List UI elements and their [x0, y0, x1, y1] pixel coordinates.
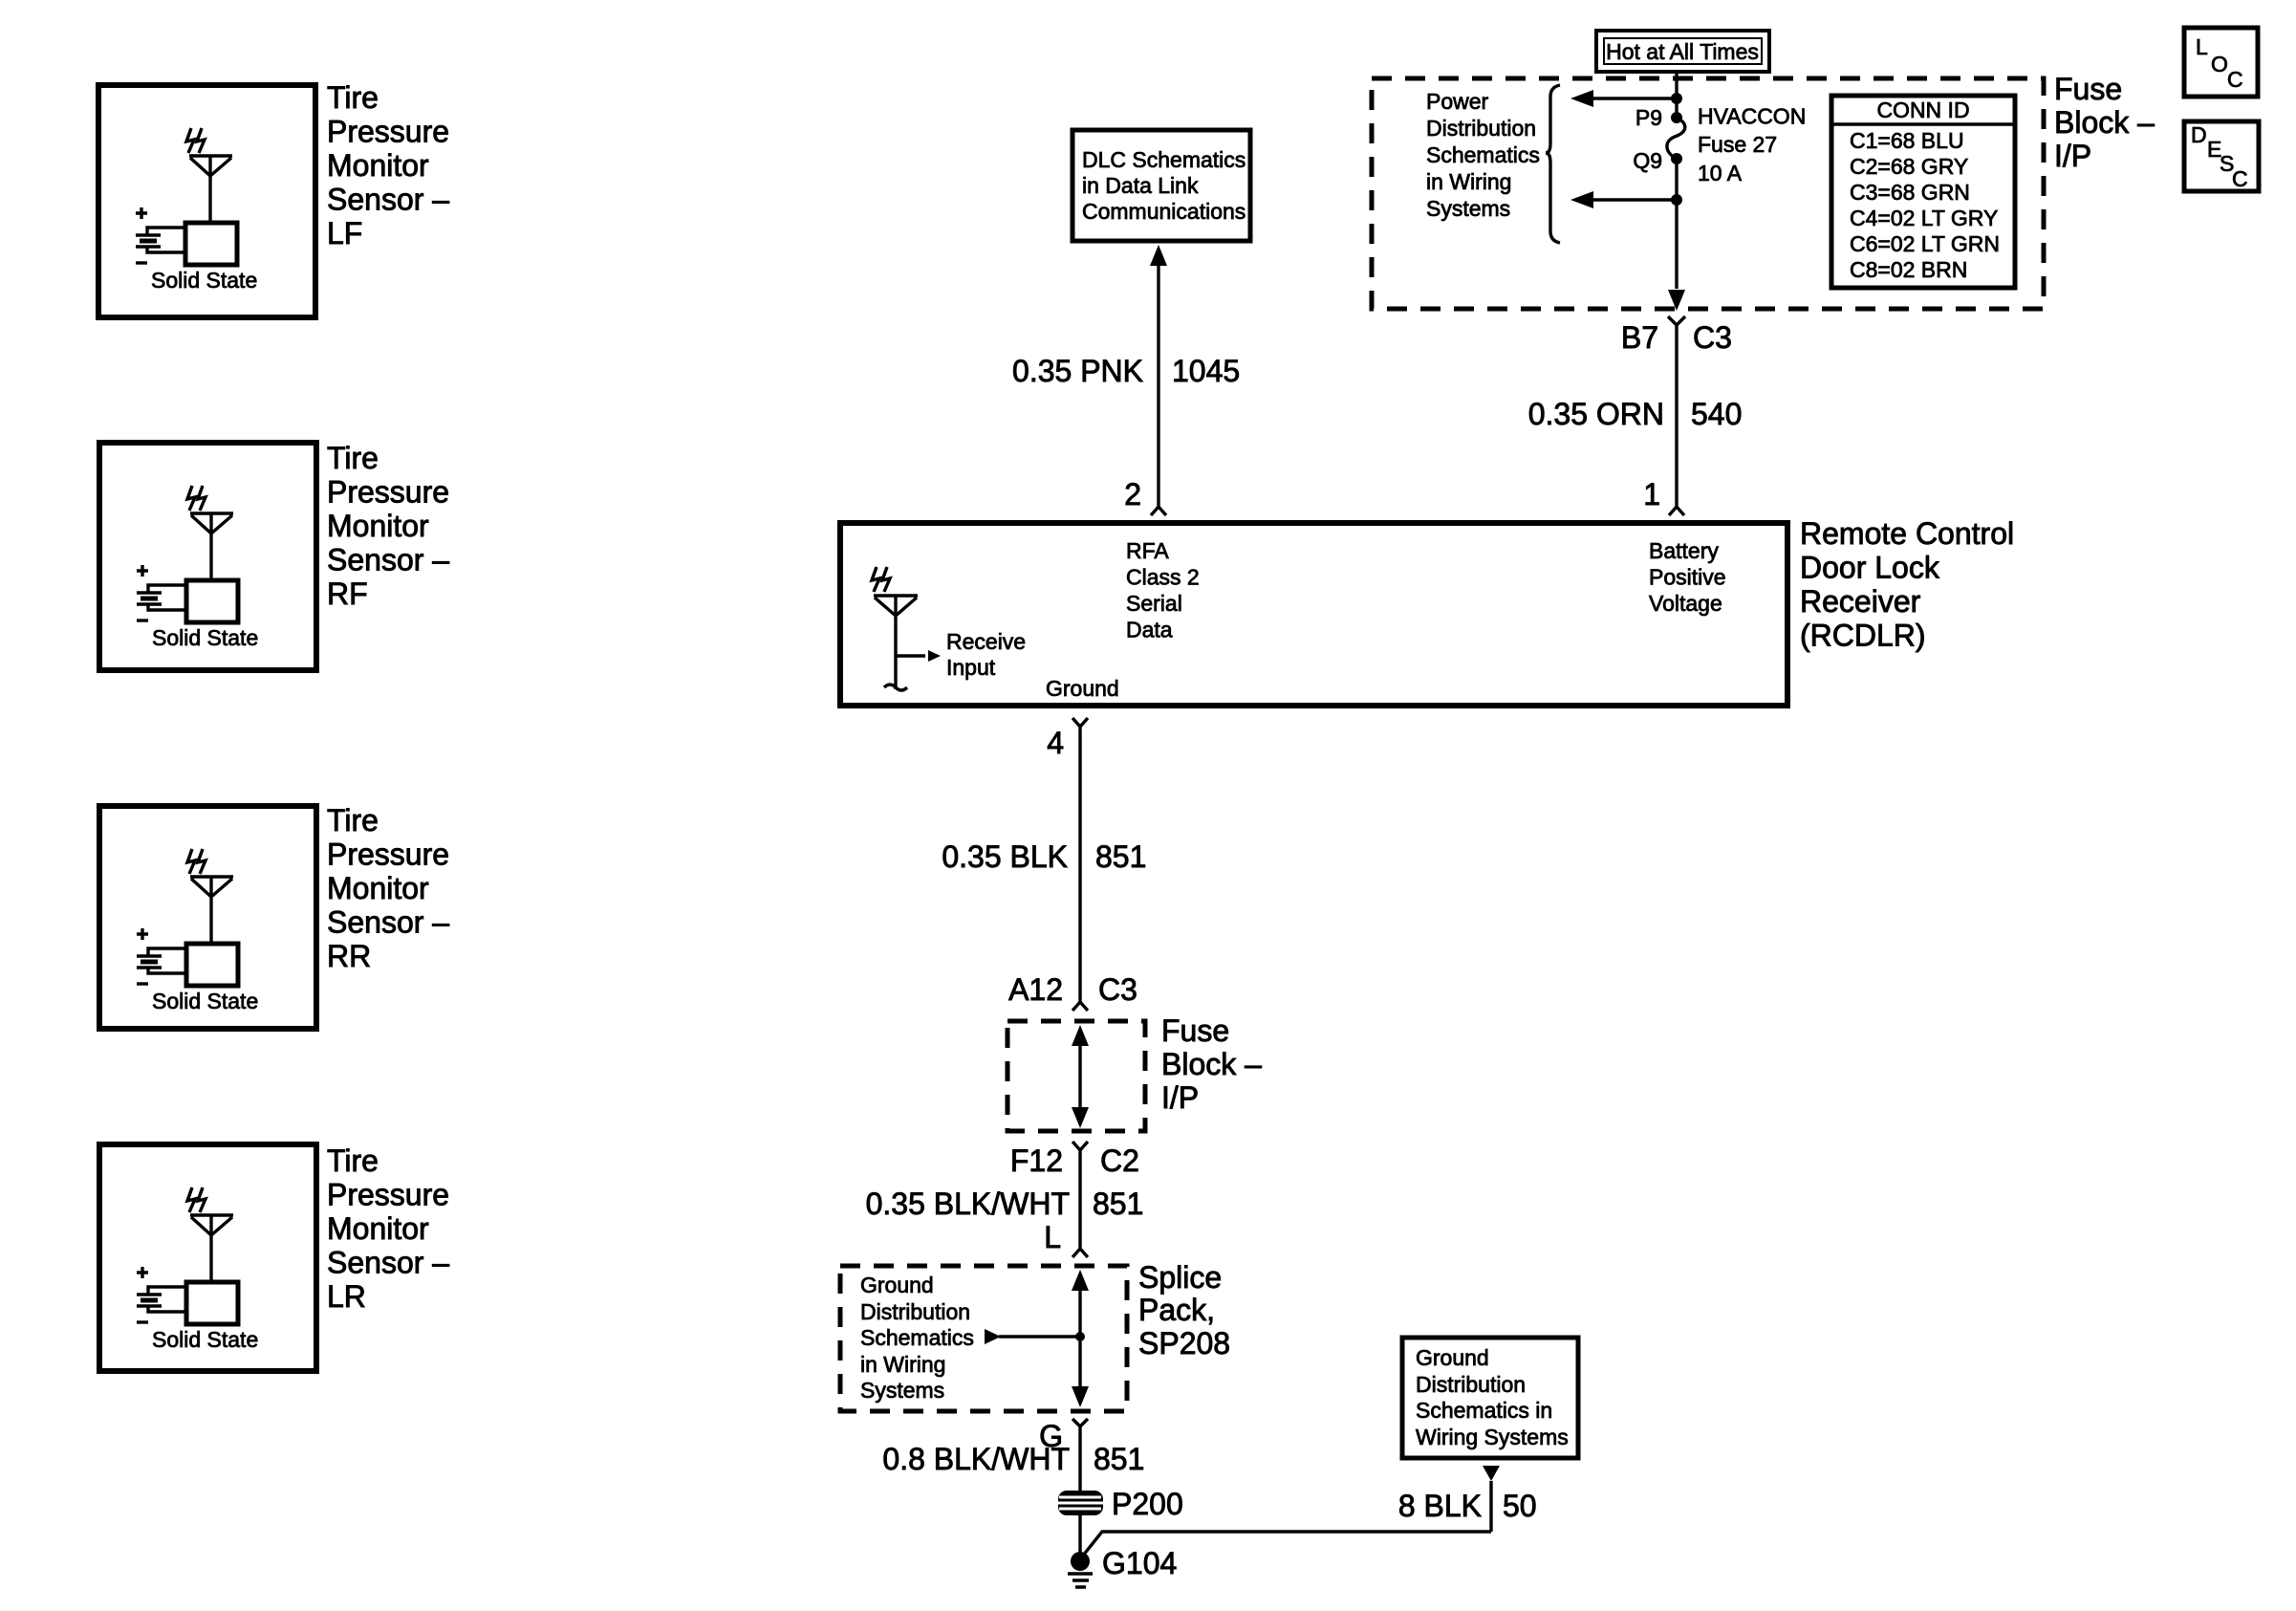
svg-text:Monitor: Monitor [327, 871, 429, 905]
arrowhead up at splice top [1072, 1270, 1089, 1291]
svg-text:Block –: Block – [1161, 1047, 1262, 1081]
svg-text:RFA: RFA [1126, 538, 1169, 563]
ground G104 symbol [1068, 1552, 1093, 1587]
svg-text:C1=68 BLU: C1=68 BLU [1850, 128, 1964, 153]
svg-text:4: 4 [1047, 726, 1064, 760]
svg-text:Tire: Tire [327, 803, 379, 838]
svg-text:Receive: Receive [946, 629, 1026, 654]
svg-text:RR: RR [327, 939, 371, 973]
connector fork F12 [1072, 1142, 1088, 1150]
svg-text:0.35 PNK: 0.35 PNK [1012, 354, 1143, 388]
svg-text:Serial: Serial [1126, 591, 1182, 616]
svg-text:Power: Power [1426, 89, 1489, 114]
tire pressure monitor sensor LR box [99, 1144, 316, 1371]
antenna stem break squiggle [884, 685, 907, 690]
svg-text:C3: C3 [1098, 972, 1137, 1007]
svg-text:(RCDLR): (RCDLR) [1800, 619, 1926, 653]
label Tire Pressure Monitor Sensor LR [327, 1143, 449, 1314]
svg-text:50: 50 [1503, 1489, 1537, 1523]
fuse 27 element [1667, 112, 1685, 164]
label Receive Input [946, 629, 1026, 680]
svg-text:Door Lock: Door Lock [1800, 551, 1940, 585]
svg-text:Distribution: Distribution [860, 1299, 970, 1324]
wire label 8 BLK 50 [1398, 1489, 1537, 1523]
svg-text:LF: LF [327, 216, 362, 250]
label DLC Schematics in Data Link Communications [1082, 147, 1245, 224]
svg-text:Tire: Tire [327, 80, 379, 115]
wire to other circuits lower [1590, 198, 1677, 201]
svg-text:2: 2 [1124, 477, 1141, 512]
svg-text:Schematics in: Schematics in [1416, 1398, 1552, 1423]
wire through fuse block [1078, 1042, 1081, 1111]
fuse block IP dashed box [1372, 78, 2044, 309]
label Tire Pressure Monitor Sensor RR [327, 803, 449, 973]
wire to ground [1078, 1515, 1081, 1558]
svg-text:Monitor: Monitor [327, 509, 429, 543]
junction node upper [1671, 93, 1682, 104]
hot at all times box [1596, 31, 1769, 72]
svg-text:Systems: Systems [860, 1378, 944, 1403]
wire blk-wht 851 [1078, 1150, 1081, 1249]
label Fuse Block IP [2054, 72, 2155, 173]
pin label RFA Class 2 Serial Data [1126, 538, 1200, 642]
connector label F12 C2 [1010, 1143, 1139, 1178]
svg-text:I/P: I/P [2054, 139, 2091, 173]
svg-text:HVACCON: HVACCON [1698, 104, 1806, 129]
arrowhead down at fuse block bottom [1072, 1107, 1089, 1128]
svg-text:Positive: Positive [1649, 565, 1726, 590]
conn id table [1831, 96, 2015, 288]
svg-text:0.35 BLK/WHT: 0.35 BLK/WHT [866, 1186, 1070, 1221]
svg-text:Receiver: Receiver [1800, 584, 1921, 619]
receive input arrow [896, 654, 925, 657]
arrowhead down from ground distribution box [1483, 1466, 1500, 1481]
label Power Distribution Schematics in Wiring Systems [1426, 89, 1540, 221]
pin 1 connector fork [1669, 507, 1684, 515]
svg-text:Battery: Battery [1649, 538, 1719, 563]
svg-text:Ground: Ground [1046, 676, 1119, 701]
svg-text:SP208: SP208 [1138, 1326, 1230, 1361]
svg-text:Data: Data [1126, 618, 1173, 642]
arrowhead down at splice bottom [1072, 1386, 1089, 1407]
wire label 0.35 ORN 540 [1528, 397, 1743, 431]
svg-text:F12: F12 [1010, 1143, 1063, 1178]
svg-text:C2: C2 [1100, 1143, 1139, 1178]
svg-text:0.35 ORN: 0.35 ORN [1528, 397, 1664, 431]
arrowhead left upper [1570, 90, 1593, 107]
wire to other circuits upper [1590, 97, 1677, 99]
connector label A12 C3 [1008, 972, 1137, 1007]
svg-text:A12: A12 [1008, 972, 1063, 1007]
svg-text:851: 851 [1094, 1442, 1144, 1476]
svg-text:Sensor –: Sensor – [327, 183, 449, 217]
svg-text:Monitor: Monitor [327, 1211, 429, 1246]
svg-text:B7: B7 [1621, 320, 1658, 355]
svg-text:10 A: 10 A [1698, 161, 1743, 185]
svg-text:Pressure: Pressure [327, 1178, 449, 1212]
brace [1546, 85, 1560, 243]
svg-text:I/P: I/P [1161, 1080, 1199, 1115]
svg-text:0.8 BLK/WHT: 0.8 BLK/WHT [882, 1442, 1070, 1476]
svg-text:Class 2: Class 2 [1126, 565, 1200, 590]
svg-text:P200: P200 [1112, 1487, 1183, 1521]
fuse block IP lower dashed box [1007, 1021, 1145, 1131]
svg-text:851: 851 [1093, 1186, 1143, 1221]
svg-text:C3=68 GRN: C3=68 GRN [1850, 180, 1970, 205]
svg-text:0.35 BLK: 0.35 BLK [942, 839, 1068, 874]
svg-text:C4=02 LT GRY: C4=02 LT GRY [1850, 206, 1998, 230]
svg-text:Pressure: Pressure [327, 475, 449, 510]
svg-text:C3: C3 [1693, 320, 1732, 355]
connector fork L [1072, 1249, 1088, 1257]
svg-text:O: O [2211, 52, 2228, 76]
svg-text:in Wiring: in Wiring [860, 1352, 945, 1377]
svg-text:Hot at All Times: Hot at All Times [1606, 39, 1759, 64]
svg-text:851: 851 [1095, 839, 1146, 874]
wire pnk serial data to DLC [1157, 264, 1159, 507]
svg-text:Schematics: Schematics [860, 1325, 974, 1350]
svg-text:Fuse: Fuse [1161, 1013, 1229, 1048]
svg-text:Sensor –: Sensor – [327, 543, 449, 577]
svg-text:Distribution: Distribution [1426, 116, 1536, 141]
svg-text:Schematics: Schematics [1426, 142, 1540, 167]
label Splice Pack SP208 [1138, 1260, 1230, 1361]
svg-text:C6=02 LT GRN: C6=02 LT GRN [1850, 231, 2000, 256]
connector label B7 C3 [1621, 320, 1732, 355]
junction node lower [1671, 194, 1682, 206]
wire label 0.8 BLK/WHT 851 [882, 1442, 1144, 1476]
svg-text:C: C [2227, 67, 2243, 92]
label Tire Pressure Monitor Sensor LF [327, 80, 449, 250]
tire pressure monitor sensor LF box [98, 85, 315, 317]
svg-text:Voltage: Voltage [1649, 591, 1722, 616]
DLC schematics reference box [1072, 130, 1250, 241]
RF wave marks [872, 567, 890, 592]
svg-text:G104: G104 [1102, 1546, 1177, 1580]
antenna symbol U1 receive [872, 567, 941, 690]
splice pack SP208 dashed box [840, 1266, 1127, 1411]
svg-text:Ground: Ground [860, 1273, 934, 1297]
svg-text:Pack,: Pack, [1138, 1293, 1215, 1327]
wire 8 blk 50 run [1083, 1481, 1491, 1556]
svg-text:Input: Input [946, 655, 996, 680]
pin 4 connector fork [1072, 718, 1088, 727]
svg-text:L: L [2196, 34, 2208, 59]
splice reference pointer [985, 1329, 1085, 1344]
arrowhead down at fuse block edge [1668, 290, 1685, 311]
svg-text:C2=68 GRY: C2=68 GRY [1850, 154, 1968, 179]
tire pressure monitor sensor RR box [99, 806, 316, 1029]
svg-text:in Data Link: in Data Link [1082, 173, 1199, 198]
svg-text:1: 1 [1643, 477, 1660, 512]
wire label 0.35 BLK 851 [942, 839, 1146, 874]
tire pressure monitor sensor RF box [99, 443, 316, 670]
label Ground Distribution Schematics in Wiring Systems [1416, 1345, 1569, 1449]
svg-text:Sensor –: Sensor – [327, 905, 449, 940]
grommet P200 [1055, 1491, 1105, 1515]
svg-text:Remote Control: Remote Control [1800, 516, 2014, 551]
label Remote Control Door Lock Receiver RCDLR [1800, 516, 2014, 653]
svg-text:8 BLK: 8 BLK [1398, 1489, 1482, 1523]
svg-text:Tire: Tire [327, 441, 379, 475]
arrowhead left lower [1570, 191, 1593, 208]
wire blk ground from pin 4 [1078, 727, 1081, 1002]
svg-text:D: D [2191, 122, 2207, 147]
svg-text:Tire: Tire [327, 1143, 379, 1178]
svg-text:Distribution: Distribution [1416, 1372, 1526, 1397]
wire orn battery feed [1675, 325, 1678, 507]
wire fuse output [1675, 159, 1678, 289]
svg-text:RF: RF [327, 577, 368, 611]
wire label 0.35 BLK/WHT 851 [866, 1186, 1144, 1221]
svg-text:DLC Schematics: DLC Schematics [1082, 147, 1245, 172]
svg-text:L: L [1044, 1220, 1061, 1254]
connector fork B7 [1668, 316, 1685, 325]
pin 2 connector fork [1151, 507, 1166, 515]
label Fuse Block IP lower [1161, 1013, 1262, 1115]
label HVACCON Fuse 27 10 A [1698, 104, 1806, 186]
svg-text:in Wiring: in Wiring [1426, 169, 1511, 194]
connector fork A12 [1072, 1002, 1088, 1011]
pin label Battery Positive Voltage [1649, 538, 1726, 616]
svg-text:Fuse 27: Fuse 27 [1698, 132, 1777, 157]
svg-text:Sensor –: Sensor – [327, 1246, 449, 1280]
svg-text:Fuse: Fuse [2054, 72, 2122, 106]
svg-text:Communications: Communications [1082, 199, 1245, 224]
svg-text:Pressure: Pressure [327, 115, 449, 149]
svg-text:Ground: Ground [1416, 1345, 1489, 1370]
svg-text:CONN ID: CONN ID [1876, 98, 1969, 122]
svg-text:Systems: Systems [1426, 196, 1510, 221]
svg-text:540: 540 [1691, 397, 1742, 431]
connector fork G [1072, 1419, 1088, 1426]
label Tire Pressure Monitor Sensor RF [327, 441, 449, 611]
svg-text:C8=02 BRN: C8=02 BRN [1850, 257, 1967, 282]
svg-text:Pressure: Pressure [327, 838, 449, 872]
svg-text:P9: P9 [1635, 105, 1662, 130]
LOC legend box [2184, 28, 2258, 97]
label Ground Distribution Schematics in Wiring Systems [860, 1273, 974, 1403]
svg-text:Wiring Systems: Wiring Systems [1416, 1425, 1569, 1449]
ground distribution reference box [1402, 1338, 1578, 1458]
wire 0.8 blk-wht [1078, 1426, 1081, 1491]
svg-text:LR: LR [327, 1279, 366, 1314]
svg-text:Q9: Q9 [1633, 148, 1662, 173]
remote control door lock receiver RCDLR box [840, 523, 1787, 706]
wire label 0.35 PNK 1045 [1012, 354, 1240, 388]
svg-text:Splice: Splice [1138, 1260, 1222, 1295]
svg-text:C: C [2232, 166, 2248, 191]
arrowhead up at fuse block top [1072, 1025, 1089, 1046]
svg-text:Block –: Block – [2054, 105, 2155, 140]
svg-text:Monitor: Monitor [327, 148, 429, 183]
DESC legend box [2184, 121, 2259, 191]
svg-text:1045: 1045 [1172, 354, 1240, 388]
arrowhead up into DLC box [1150, 245, 1167, 266]
wire hot feed stub [1675, 72, 1678, 116]
wire through splice pack [1078, 1287, 1081, 1388]
